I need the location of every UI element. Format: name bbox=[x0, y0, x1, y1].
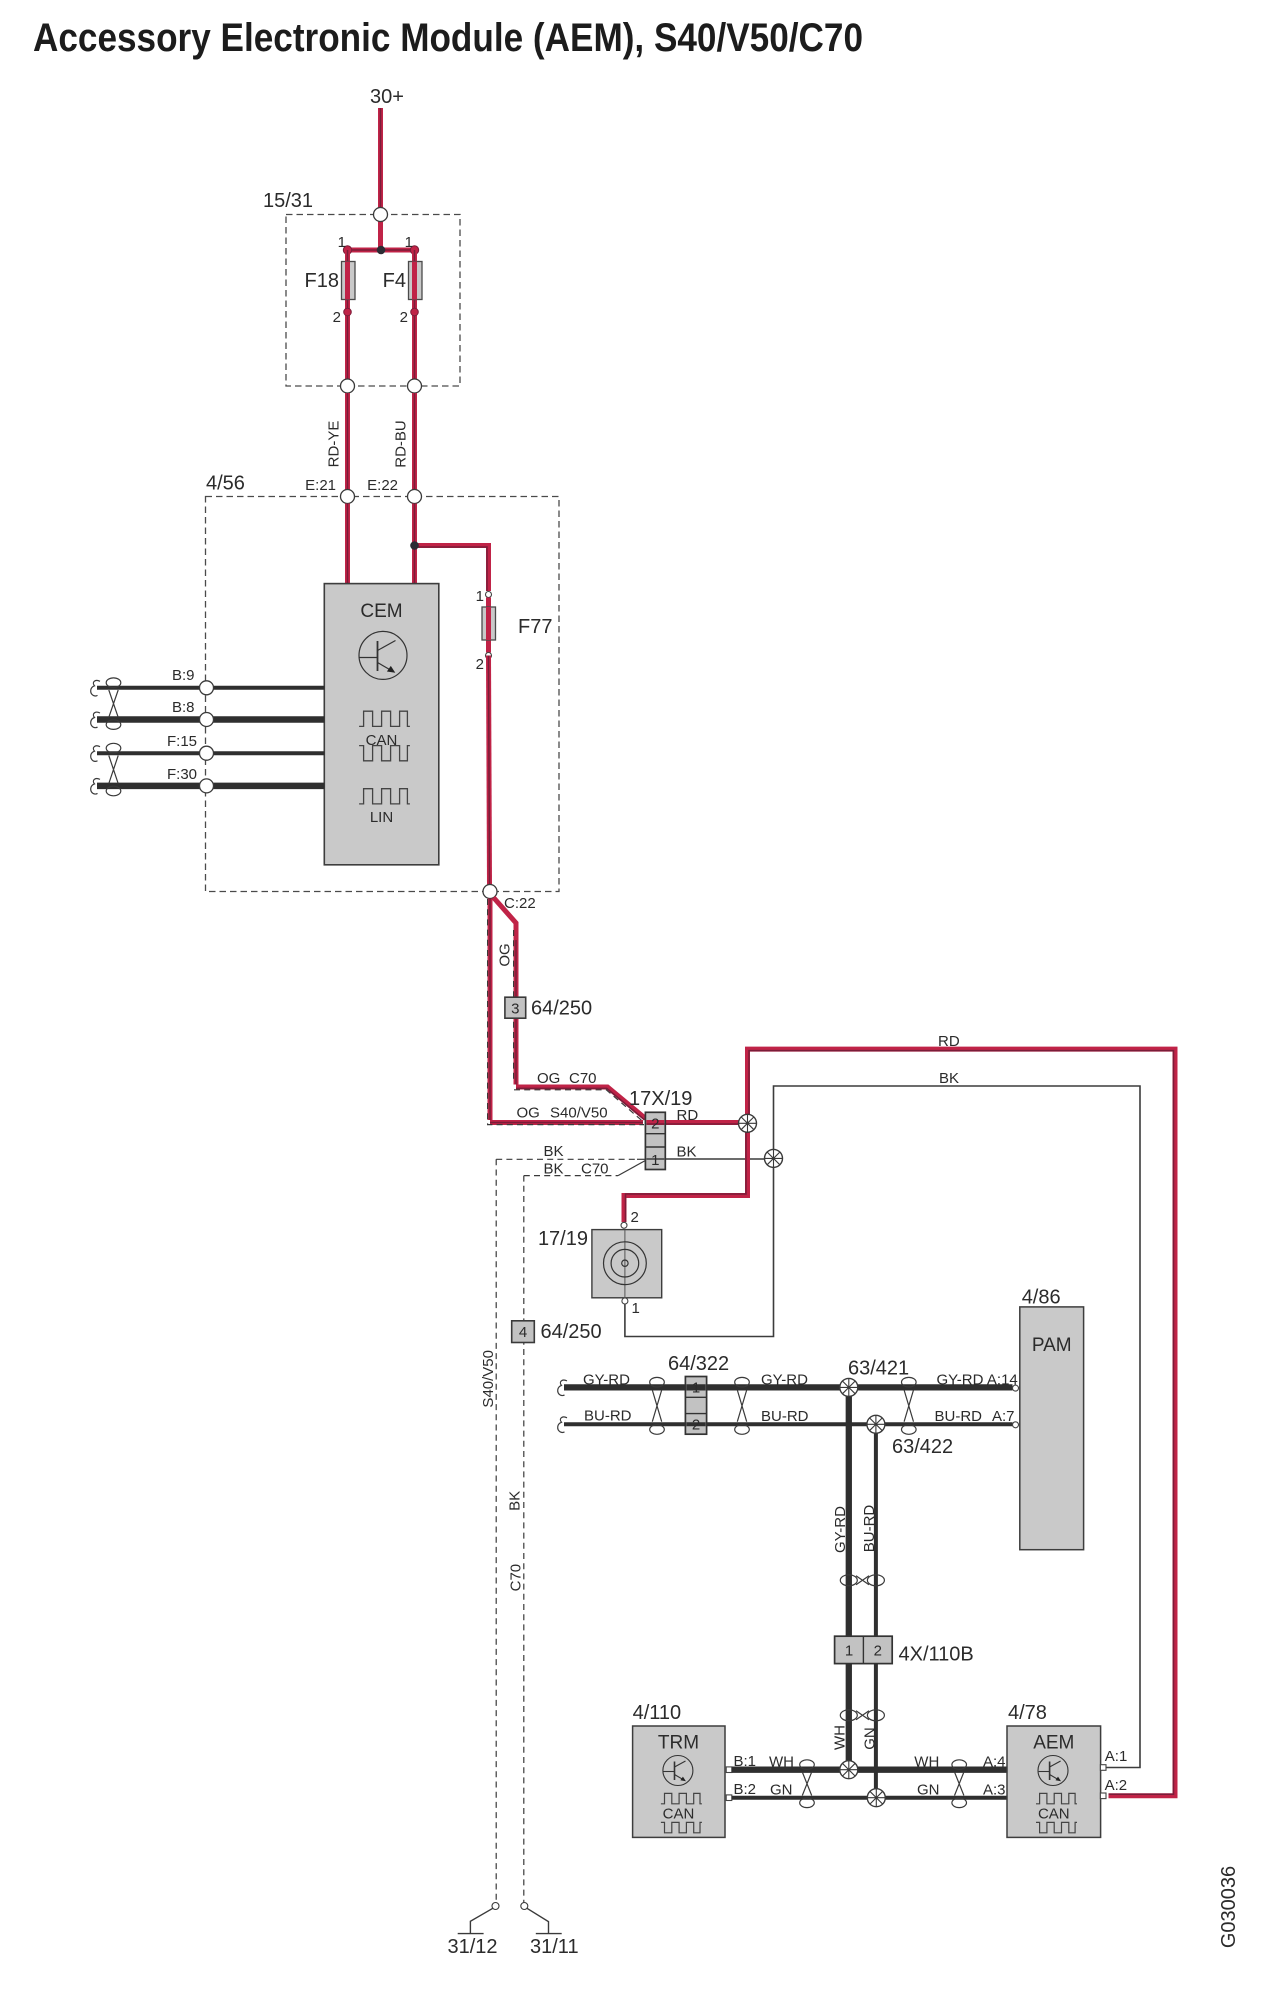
svg-text:WH: WH bbox=[769, 1754, 794, 1771]
wire WH TRM to AEM bbox=[732, 1767, 1007, 1773]
CAN symbol CEM bbox=[359, 711, 410, 726]
svg-text:GY-RD: GY-RD bbox=[761, 1372, 808, 1389]
svg-text:GN: GN bbox=[862, 1727, 879, 1750]
wire through F18 bbox=[345, 250, 350, 386]
wire fuse feed bar bbox=[348, 248, 415, 253]
wire B:9 bbox=[97, 686, 324, 690]
svg-text:2: 2 bbox=[651, 1116, 659, 1133]
wire supply into fuse box bbox=[378, 221, 383, 250]
pin dot F4:2 bbox=[411, 308, 419, 316]
svg-text:30+: 30+ bbox=[370, 86, 404, 108]
svg-text:4X/110B: 4X/110B bbox=[899, 1644, 974, 1666]
svg-text:OG: OG bbox=[517, 1105, 540, 1122]
connector circle F18 out bbox=[341, 379, 355, 393]
svg-text:1: 1 bbox=[632, 1300, 640, 1317]
wire GN vertical bbox=[874, 1664, 878, 1798]
svg-text:E:22: E:22 bbox=[367, 477, 398, 494]
transistor symbol TRM bbox=[663, 1756, 693, 1786]
svg-text:F:30: F:30 bbox=[167, 766, 197, 783]
svg-text:CAN: CAN bbox=[663, 1805, 695, 1822]
wire GN TRM to AEM bbox=[732, 1796, 1007, 1800]
svg-text:31/11: 31/11 bbox=[530, 1936, 579, 1958]
splice RD bbox=[739, 1114, 757, 1132]
twisted pair marker right of 64/322 bbox=[735, 1377, 750, 1434]
module AEM 4/78 bbox=[1007, 1726, 1101, 1837]
svg-text:63/421: 63/421 bbox=[848, 1358, 909, 1380]
svg-text:GY-RD: GY-RD bbox=[937, 1372, 984, 1389]
component 17/19 (cigarette lighter) bbox=[592, 1209, 662, 1317]
svg-text:64/322: 64/322 bbox=[668, 1353, 729, 1375]
connector 17X/19 body bbox=[645, 1112, 665, 1169]
svg-text:Accessory Electronic Module (A: Accessory Electronic Module (AEM), S40/V… bbox=[33, 16, 863, 60]
pin square TRM B:2 bbox=[726, 1795, 732, 1801]
svg-text:CAN: CAN bbox=[1038, 1805, 1070, 1822]
twisted pair marker above 4X/110B bbox=[840, 1575, 884, 1586]
pin square AEM A:1 bbox=[1100, 1765, 1106, 1771]
wire GY-RD horizontal bbox=[564, 1384, 1013, 1390]
module TRM 4/110 bbox=[633, 1726, 725, 1837]
svg-text:C70: C70 bbox=[581, 1161, 609, 1178]
junction dot bbox=[377, 246, 386, 255]
svg-text:64/250: 64/250 bbox=[541, 1321, 602, 1343]
svg-text:2: 2 bbox=[333, 309, 341, 326]
wire BK net: splice up, across, down to AEM A:1 bbox=[774, 1086, 1141, 1768]
connector circle B:9 bbox=[200, 681, 214, 695]
wire BK dashed C70 variant bbox=[524, 1175, 618, 1177]
svg-text:E:21: E:21 bbox=[305, 477, 336, 494]
transistor symbol CEM bbox=[359, 631, 407, 679]
svg-text:A:7: A:7 bbox=[992, 1408, 1015, 1425]
svg-text:2: 2 bbox=[692, 1416, 700, 1433]
dashed line C70 to ground bbox=[523, 1176, 525, 1903]
connector circle 15/31 top bbox=[374, 208, 388, 222]
wire BK branch down to 17/19:1 bbox=[625, 1158, 774, 1336]
svg-text:15/31: 15/31 bbox=[263, 190, 313, 212]
splice BK bbox=[765, 1149, 783, 1167]
pin dot F18:2 bbox=[344, 308, 352, 316]
pin circle PAM A:7 bbox=[1013, 1422, 1019, 1428]
svg-text:17/19: 17/19 bbox=[538, 1228, 588, 1250]
svg-text:B:8: B:8 bbox=[172, 699, 195, 716]
svg-text:RD: RD bbox=[677, 1107, 699, 1124]
dashed line S40/V50 to ground bbox=[495, 1159, 497, 1902]
connector circle E:21 bbox=[341, 490, 355, 504]
wire OG S40/V50 variant (red with dashed overlay) bbox=[490, 899, 643, 1123]
wire RD net: splice up, across top, down right side to AEM A:2 bbox=[748, 1049, 1176, 1796]
connector 3 of 64/250 bbox=[505, 997, 526, 1018]
wire BU-RD vertical branch bbox=[874, 1424, 878, 1636]
CEM box 4/56 dashed outline bbox=[206, 497, 560, 892]
splice 63/421 bbox=[840, 1378, 858, 1396]
splice 63/422 bbox=[867, 1415, 885, 1433]
svg-text:F:15: F:15 bbox=[167, 733, 197, 750]
connector circle B:8 bbox=[200, 713, 214, 727]
svg-text:BK: BK bbox=[507, 1491, 524, 1511]
LIN symbol CEM bbox=[359, 789, 410, 804]
svg-text:1: 1 bbox=[405, 234, 413, 251]
svg-text:RD-YE: RD-YE bbox=[326, 421, 343, 468]
ground 31/12 bbox=[458, 1903, 499, 1934]
svg-text:BK: BK bbox=[544, 1143, 564, 1160]
wire-end hook B:9 bbox=[91, 680, 100, 696]
svg-text:F18: F18 bbox=[305, 270, 339, 292]
wire RD-BU bbox=[412, 393, 417, 490]
connector 4X/110B bbox=[835, 1636, 893, 1663]
svg-text:OG: OG bbox=[497, 943, 514, 966]
svg-text:GY-RD: GY-RD bbox=[832, 1506, 849, 1553]
svg-text:BK: BK bbox=[939, 1070, 959, 1087]
wire BK connector to splice bbox=[665, 1158, 773, 1160]
pin dot F18:1 bbox=[343, 246, 351, 254]
connector circle E:22 bbox=[408, 490, 422, 504]
svg-text:BK: BK bbox=[677, 1144, 697, 1161]
transistor symbol AEM bbox=[1038, 1756, 1068, 1786]
wire RD branch down to 17/19:2 bbox=[624, 1123, 748, 1222]
twisted pair marker below 4X/110B bbox=[840, 1710, 884, 1721]
wire-end hook F:30 bbox=[91, 779, 100, 795]
wire-end hook B:8 bbox=[91, 712, 100, 728]
junction dot E:22/F77 bbox=[410, 541, 419, 550]
connector circle F:30 bbox=[200, 779, 214, 793]
wire E:21 to CEM bbox=[345, 504, 350, 586]
wire F:30 bbox=[97, 783, 324, 790]
wire GY-RD vertical branch bbox=[846, 1387, 852, 1636]
wire B:8 bbox=[97, 716, 324, 723]
svg-text:BK: BK bbox=[544, 1161, 564, 1178]
wire F:15 bbox=[97, 751, 324, 755]
svg-text:S40/V50: S40/V50 bbox=[480, 1350, 497, 1408]
svg-text:4: 4 bbox=[519, 1324, 527, 1341]
twisted pair marker before PAM bbox=[902, 1377, 917, 1434]
module PAM 4/86 bbox=[1020, 1307, 1084, 1550]
wire 30+ feed bbox=[378, 108, 383, 209]
connector circle F:15 bbox=[200, 746, 214, 760]
svg-text:63/422: 63/422 bbox=[892, 1436, 953, 1458]
svg-text:G030036: G030036 bbox=[1218, 1866, 1240, 1948]
svg-text:1: 1 bbox=[651, 1152, 659, 1169]
wire RD connector to splice bbox=[665, 1120, 747, 1125]
svg-text:RD: RD bbox=[938, 1033, 960, 1050]
svg-text:2: 2 bbox=[631, 1209, 639, 1226]
CAN symbol TRM bbox=[661, 1793, 702, 1803]
svg-text:A:3: A:3 bbox=[983, 1782, 1006, 1799]
svg-text:GY-RD: GY-RD bbox=[583, 1372, 630, 1389]
svg-text:3: 3 bbox=[511, 1001, 519, 1018]
twisted pair marker left bbox=[800, 1760, 815, 1808]
fuse box 15/31 dashed outline bbox=[286, 215, 460, 387]
wire OG C70 variant bbox=[494, 898, 646, 1119]
wire through F4 bbox=[412, 250, 417, 386]
wire-end hook GY-RD bbox=[558, 1380, 567, 1396]
twisted pair F:15/F:30 bbox=[106, 743, 121, 796]
svg-text:B:2: B:2 bbox=[734, 1781, 757, 1798]
svg-text:B:9: B:9 bbox=[172, 667, 195, 684]
svg-text:PAM: PAM bbox=[1032, 1335, 1072, 1356]
svg-text:1: 1 bbox=[476, 588, 484, 605]
twisted pair marker right bbox=[952, 1760, 967, 1808]
svg-text:64/250: 64/250 bbox=[531, 998, 592, 1020]
svg-text:4/110: 4/110 bbox=[633, 1702, 682, 1724]
svg-text:2: 2 bbox=[400, 309, 408, 326]
svg-text:A:2: A:2 bbox=[1105, 1777, 1128, 1794]
svg-text:4/86: 4/86 bbox=[1022, 1287, 1061, 1309]
splice GN bbox=[867, 1789, 885, 1807]
wire BK dashed S40/V50 variant bbox=[496, 1158, 637, 1160]
svg-text:WH: WH bbox=[914, 1754, 939, 1771]
pin square AEM A:2 bbox=[1100, 1793, 1106, 1799]
svg-text:GN: GN bbox=[770, 1782, 793, 1799]
fuse F18 bbox=[342, 262, 356, 300]
CEM module box bbox=[324, 584, 439, 865]
wire E:22 to CEM bbox=[412, 504, 417, 586]
svg-text:4/78: 4/78 bbox=[1008, 1702, 1047, 1724]
ground 31/11 bbox=[521, 1903, 562, 1934]
svg-text:TRM: TRM bbox=[658, 1733, 699, 1754]
svg-text:4/56: 4/56 bbox=[206, 473, 245, 495]
svg-text:BU-RD: BU-RD bbox=[584, 1408, 632, 1425]
pin square TRM B:1 bbox=[726, 1767, 732, 1773]
svg-text:2: 2 bbox=[476, 656, 484, 673]
svg-text:LIN: LIN bbox=[370, 809, 393, 826]
svg-text:2: 2 bbox=[874, 1642, 882, 1659]
CAN symbol AEM bbox=[1036, 1793, 1077, 1803]
twisted pair B:9/B:8 bbox=[106, 678, 121, 729]
svg-text:F4: F4 bbox=[383, 270, 406, 292]
svg-text:C:22: C:22 bbox=[504, 895, 536, 912]
twisted pair marker left of 64/322 bbox=[650, 1377, 665, 1434]
svg-text:A:4: A:4 bbox=[983, 1754, 1006, 1771]
splice WH bbox=[840, 1761, 858, 1779]
svg-text:F77: F77 bbox=[518, 616, 552, 638]
connector 64/322 bbox=[685, 1377, 706, 1435]
svg-text:C70: C70 bbox=[508, 1564, 525, 1592]
wire-end hook F:15 bbox=[91, 746, 100, 762]
wire BU-RD horizontal bbox=[564, 1422, 1013, 1426]
pin dot F4:1 bbox=[410, 246, 418, 254]
wire RD-YE bbox=[345, 393, 350, 490]
svg-text:BU-RD: BU-RD bbox=[761, 1408, 809, 1425]
svg-text:CEM: CEM bbox=[360, 601, 402, 622]
svg-text:BU-RD: BU-RD bbox=[861, 1505, 878, 1553]
svg-text:RD-BU: RD-BU bbox=[393, 420, 410, 468]
fuse F4 bbox=[409, 262, 423, 300]
svg-text:BU-RD: BU-RD bbox=[935, 1408, 983, 1425]
connector circle C:22 bbox=[483, 885, 497, 899]
svg-text:1: 1 bbox=[845, 1642, 853, 1659]
svg-text:1: 1 bbox=[338, 234, 346, 251]
svg-text:A:1: A:1 bbox=[1105, 1748, 1128, 1765]
svg-text:C70: C70 bbox=[569, 1070, 597, 1087]
svg-text:S40/V50: S40/V50 bbox=[550, 1105, 608, 1122]
svg-text:OG: OG bbox=[537, 1070, 560, 1087]
svg-text:1: 1 bbox=[692, 1379, 700, 1396]
wire branch to F77 bbox=[415, 546, 489, 592]
connector circle F4 out bbox=[408, 379, 422, 393]
svg-text:31/12: 31/12 bbox=[448, 1936, 498, 1958]
svg-text:WH: WH bbox=[832, 1725, 849, 1750]
svg-text:AEM: AEM bbox=[1033, 1733, 1074, 1754]
pin circle PAM A:14 bbox=[1013, 1385, 1019, 1391]
connector 4 of 64/250 bbox=[512, 1321, 535, 1343]
wire WH vertical bbox=[846, 1664, 852, 1770]
wire-end hook BU-RD bbox=[558, 1417, 567, 1433]
wire F77 to C:22 bbox=[489, 656, 490, 885]
svg-text:GN: GN bbox=[917, 1782, 940, 1799]
